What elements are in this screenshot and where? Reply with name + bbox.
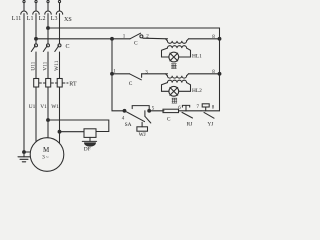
node L1 control tap: [35, 37, 38, 40]
socket XS pin L2: [45, 0, 51, 14]
svg-text:3~: 3~: [42, 155, 49, 161]
wire bell branch lower: [60, 131, 85, 133]
svg-text:L3: L3: [51, 16, 58, 22]
svg-text:C: C: [134, 41, 138, 47]
wire L3 middle: [59, 52, 61, 79]
svg-text:YJ: YJ: [207, 121, 213, 127]
lamp HL2 loop wires: [162, 83, 191, 92]
svg-text:M: M: [43, 146, 50, 154]
svg-text:W1: W1: [51, 104, 59, 110]
svg-text:V1: V1: [40, 104, 47, 110]
contactor C main contact pole 3: [55, 44, 61, 52]
socket XS pin L11: [21, 0, 27, 14]
node branch1 right: [218, 37, 221, 40]
svg-text:C: C: [66, 44, 70, 50]
wire L2 vertical upper: [47, 14, 49, 44]
wire U1 to motor: [35, 87, 37, 142]
contact C NO (branch 1): [130, 33, 168, 39]
label lamp2 char: [172, 98, 177, 103]
svg-text:WJ: WJ: [139, 132, 146, 138]
wire L2 middle: [47, 52, 49, 79]
svg-text:6: 6: [178, 106, 181, 111]
socket XS pin L1: [33, 0, 39, 14]
WJ float device box: [137, 127, 148, 131]
svg-text:W11: W11: [54, 60, 60, 71]
thermal element RT phase U: [34, 79, 39, 88]
transformer B1 primary: [166, 39, 220, 44]
svg-text:C: C: [129, 81, 133, 87]
socket XS pin L3: [56, 0, 62, 14]
contact YJ (pressure relay): [201, 104, 220, 118]
label lamp1 char: [171, 64, 176, 69]
svg-text:7: 7: [197, 105, 200, 110]
coil C: [163, 109, 179, 112]
wire control feed line: [36, 38, 130, 40]
svg-text:L11: L11: [12, 16, 21, 22]
node PE junction: [23, 151, 26, 154]
svg-text:RJ: RJ: [187, 122, 193, 128]
lamp HL2: [169, 86, 179, 96]
svg-text:HL1: HL1: [192, 53, 202, 59]
svg-text:XS: XS: [64, 17, 72, 23]
lamp HL1 loop wires: [162, 48, 191, 57]
wire L3 vertical upper: [59, 14, 61, 44]
thermal element RT phase W: [57, 79, 62, 88]
contact WJ stub: [144, 111, 146, 117]
wire L11 vertical: [23, 14, 25, 152]
motor M: [30, 138, 64, 172]
svg-text:SA: SA: [125, 122, 132, 128]
switch SA blade: [125, 111, 145, 122]
node 5 junction: [148, 109, 151, 112]
wire motor frame to PE: [24, 151, 30, 153]
contact RJ (thermal relay NC): [182, 105, 201, 118]
wire bell branch upper: [48, 120, 109, 132]
contact WJ blade: [145, 116, 151, 123]
wire W1 to motor: [59, 87, 61, 143]
svg-text:C: C: [167, 117, 171, 123]
contact C NC (branch 2): [112, 74, 168, 80]
contactor C main contact pole 1: [31, 44, 37, 52]
transformer B1 secondary: [167, 46, 186, 48]
node branch2 right: [218, 72, 221, 75]
node SA common: [123, 109, 126, 112]
bell transformer box: [84, 129, 96, 138]
wire L1 vertical upper: [35, 14, 37, 44]
svg-text:HL2: HL2: [192, 88, 202, 94]
switch SA upper throw path: [132, 106, 149, 111]
wire node5 to coil: [149, 110, 164, 112]
lamp HL1: [169, 52, 179, 62]
wire control top rail: [48, 28, 220, 111]
svg-text:RT: RT: [69, 81, 77, 87]
WJ link to box: [141, 122, 143, 127]
svg-text:U11: U11: [31, 61, 37, 70]
node W1 bell tap: [58, 130, 61, 133]
transformer B2 secondary: [167, 80, 186, 82]
contactor C main contact pole 2: [43, 44, 49, 52]
wire V1 to motor: [47, 87, 49, 138]
node control rail left top: [111, 37, 114, 40]
transformer B2 primary: [166, 74, 220, 78]
svg-text:DF: DF: [84, 146, 91, 152]
node branch2 tap: [111, 72, 114, 75]
bell DF: [82, 137, 96, 146]
thermal element RT phase V: [46, 79, 51, 88]
node V1 bell tap: [47, 119, 50, 122]
svg-text:V11: V11: [43, 61, 49, 70]
wire L1 middle: [35, 52, 37, 79]
wire coil to RJ: [179, 110, 187, 112]
svg-text:U1: U1: [29, 104, 36, 110]
svg-text:L1: L1: [27, 16, 34, 22]
svg-text:3: 3: [145, 70, 148, 75]
wire control left rail: [112, 39, 125, 111]
RT dashed link: [39, 82, 68, 84]
svg-text:8: 8: [212, 106, 215, 111]
node L2 top-rail tap: [47, 27, 50, 30]
svg-text:L2: L2: [39, 16, 46, 22]
ground: [18, 152, 30, 162]
